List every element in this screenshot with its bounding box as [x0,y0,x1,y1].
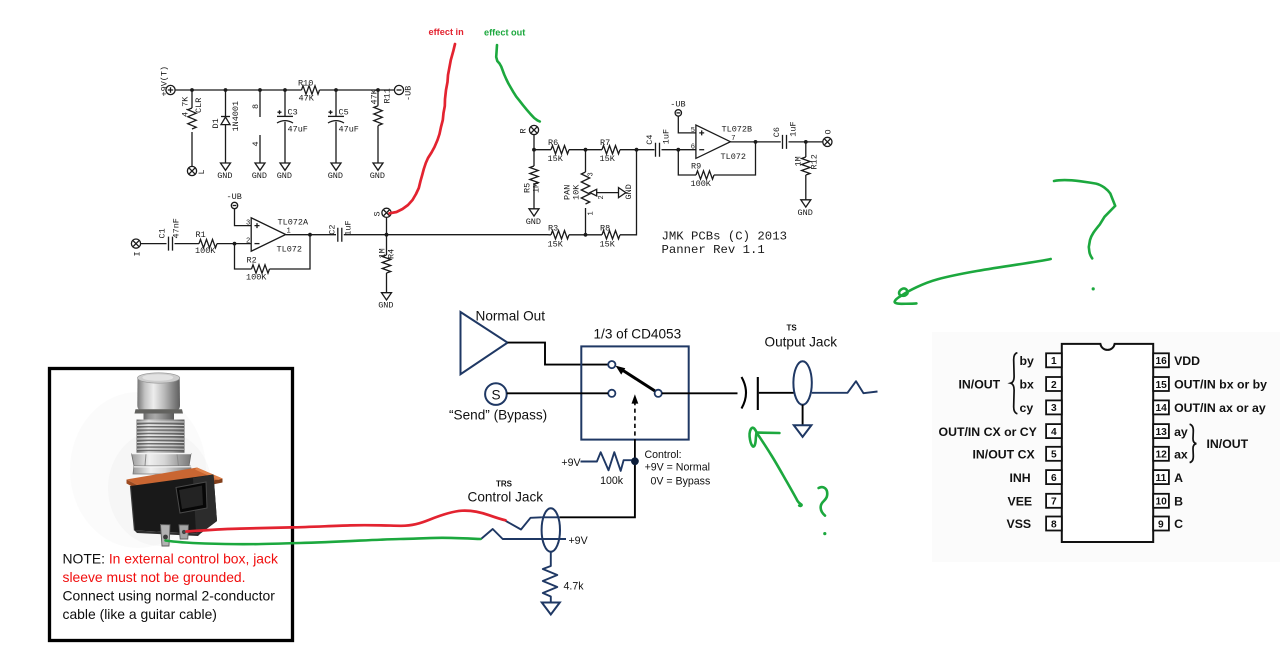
svg-text:47uF: 47uF [339,125,359,135]
svg-text:VEE: VEE [1008,495,1033,509]
svg-text:3: 3 [588,172,596,176]
svg-text:S: S [492,387,501,402]
note text line 1 [63,551,278,567]
resistor R6 15K [548,138,570,164]
svg-text:Control Jack: Control Jack [468,489,544,504]
wire S to switch throw 2 [507,392,608,394]
svg-text:effect in: effect in [429,27,465,37]
switch pole contact [655,390,662,397]
svg-text:15: 15 [1156,380,1168,391]
label +9V at 100k [561,457,581,469]
pin 4 [1046,424,1062,438]
svg-text:47K: 47K [370,88,380,104]
resistor 4.7k under jack [543,552,558,602]
ground GND under R4 [378,293,393,311]
svg-text:R6: R6 [548,138,558,148]
svg-text:OUT/IN CX or CY: OUT/IN CX or CY [939,425,1037,439]
note text line 2 [63,569,246,585]
svg-text:GND: GND [217,171,232,181]
op-amp U1B TL072B [691,125,752,163]
terminal -UB above op-amp B [670,99,685,116]
label 100k [600,475,624,487]
label cy [1020,401,1034,415]
svg-text:IN/OUT: IN/OUT [1207,437,1249,451]
svg-text:C4: C4 [645,134,655,144]
ground under output jack [794,405,812,437]
svg-text:OUT/IN bx or by: OUT/IN bx or by [1174,378,1267,392]
label 1/3 of CD4053 [594,327,682,342]
footswitch washer nut [133,466,192,474]
terminal I input [131,239,142,257]
svg-text:TS: TS [787,324,798,333]
pin 3 [1046,400,1062,414]
svg-text:TL072: TL072 [277,244,303,254]
svg-text:TL072A: TL072A [278,217,310,227]
svg-text:R3: R3 [548,223,558,233]
svg-text:47uF: 47uF [288,125,308,135]
terminal +9V(T) [160,66,176,97]
wire -UB to pin 5 [678,116,696,133]
resistor R11 47K [370,88,393,163]
svg-text:Control:: Control: [645,449,682,461]
pin 13 [1153,424,1169,438]
junction dot control [631,457,639,465]
label Control Jack [468,489,544,504]
wire junction to control jack [560,461,635,517]
svg-text:GND: GND [370,171,385,181]
label TS [787,324,798,333]
svg-text:GND: GND [624,184,634,199]
switch throw 2 contact [608,390,615,397]
S send circle [485,383,507,405]
svg-text:1/3 of CD4053: 1/3 of CD4053 [594,327,682,342]
resistor R10 47K [298,79,320,104]
terminal S [373,208,392,217]
svg-text:11: 11 [1156,473,1167,484]
label C [1174,517,1183,531]
svg-text:Output Jack: Output Jack [765,335,838,350]
label Control: [645,449,711,488]
brace right IN/OUT [1190,424,1249,462]
svg-text:R2: R2 [247,256,257,266]
svg-text:JMK PCBs (C) 2013: JMK PCBs (C) 2013 [662,230,787,244]
svg-text:16: 16 [1156,356,1168,367]
pin 15 [1153,377,1169,391]
pin 7 [1046,494,1062,508]
IC power pin 8 stub [251,90,261,117]
svg-text:14: 14 [1156,403,1168,414]
buffer triangle Normal Out [461,312,508,374]
power rail net +9V(T) wire [175,89,395,91]
capacitor C2 1uF [328,220,354,241]
svg-text:ax: ax [1174,448,1188,462]
orange mounting plate [127,468,223,498]
junction at pin 6 node [676,148,696,152]
top row wire R6 R7 to C4 [534,148,676,152]
pin 14 [1153,400,1169,414]
ground GND under pin4 [252,163,267,181]
svg-text:C5: C5 [339,108,349,118]
output coupling capacitor [742,377,794,410]
label INH [1010,471,1031,485]
pin 8 [1046,517,1062,531]
svg-text:47K: 47K [299,94,315,104]
svg-text:C3: C3 [288,108,298,118]
svg-text:I: I [133,251,143,256]
op-amp U1A TL072A [246,217,309,254]
svg-text:1N4001: 1N4001 [231,101,241,132]
wire C6 to O node [789,140,824,144]
svg-text:+9V: +9V [569,535,589,547]
label OUT/IN ax or ay [1174,401,1266,415]
svg-text:3: 3 [1051,403,1057,414]
green scribble dot right [1092,287,1095,290]
svg-text:1uF: 1uF [662,129,672,144]
footswitch threaded bushing [137,420,185,454]
ground GND under C3 [277,163,292,181]
label VSS [1007,517,1032,531]
green question squiggle [819,487,828,535]
svg-text:R11: R11 [383,88,393,103]
terminal R [519,125,539,134]
svg-text:O: O [824,129,834,134]
svg-text:OUT/IN ax or ay: OUT/IN ax or ay [1174,401,1266,415]
resistor R8 15K [600,223,621,249]
ground GND at PAN wiper (sideways) [619,184,635,199]
svg-text:bx: bx [1020,378,1035,392]
svg-text:4.7k: 4.7k [564,581,585,593]
svg-text:R1: R1 [196,230,206,240]
svg-text:4.7K: 4.7K [181,96,191,117]
resistor R9 100K feedback [678,142,755,189]
ground GND under C5 [328,163,343,181]
terminal -UB above op-amp A [227,192,242,209]
terminal O [823,129,834,146]
resistor R3 15K [548,223,570,249]
svg-text:Panner Rev 1.1: Panner Rev 1.1 [662,243,765,257]
svg-text:NOTE: In external control box,: NOTE: In external control box, jack [63,551,278,567]
svg-text:1uF: 1uF [344,220,354,235]
green scribble long arc with arrowhead [895,259,1051,304]
capacitor C3 47uF [277,90,308,163]
pin 5 [1046,447,1062,461]
output jack ellipse [793,361,811,404]
ground under 4.7k [542,603,560,615]
svg-text:1M: 1M [532,183,542,193]
footswitch hex nut [132,454,192,467]
svg-text:C2: C2 [328,224,338,234]
svg-text:+9V: +9V [561,457,581,469]
datasheet backdrop [932,332,1280,562]
label TRS [496,480,513,489]
label Normal Out [476,309,546,324]
wire I to C1 [140,243,166,245]
junction dots on rail [190,88,380,92]
ground GND under D1 [217,163,232,181]
IC power pin 4 stub [251,135,261,163]
wire R down to top row [532,134,536,151]
svg-text:+9V(T): +9V(T) [160,66,170,97]
svg-text:15K: 15K [600,239,616,249]
svg-text:100K: 100K [246,273,267,283]
svg-text:effect out: effect out [484,28,525,38]
label 4.7k [564,581,585,593]
svg-text:15K: 15K [548,154,564,164]
svg-text:7: 7 [1051,497,1057,508]
svg-text:-UB: -UB [227,192,242,202]
svg-text:R10: R10 [298,79,313,89]
svg-text:IN/OUT: IN/OUT [959,378,1001,392]
svg-text:R4: R4 [387,249,397,259]
resistor R12 1M [794,142,820,200]
svg-text:C1: C1 [158,228,168,238]
resistor R1 100K [195,230,217,256]
wire red-end squiggle to jack tip [505,517,560,529]
pin 16 [1153,353,1169,367]
svg-text:100K: 100K [691,179,712,189]
wire op-amp A output [286,233,336,237]
green control wire from lug [166,538,481,544]
potentiometer PAN 10K [563,150,619,235]
svg-text:2: 2 [1051,380,1057,391]
svg-text:R7: R7 [600,138,610,148]
svg-text:cy: cy [1020,401,1034,415]
svg-text:VDD: VDD [1174,354,1200,368]
label by [1020,354,1035,368]
resistor R7 15K [600,138,621,164]
svg-text:2: 2 [598,195,606,199]
svg-text:C6: C6 [772,127,782,137]
resistor 100k hand-drawn [581,452,632,471]
svg-text:L: L [197,169,207,174]
note text line 4 [63,606,217,622]
svg-text:6: 6 [691,144,695,152]
control jack ellipse [542,508,560,551]
svg-text:GND: GND [328,171,343,181]
label IN/OUT CX [973,448,1036,462]
pin 11 [1153,470,1169,484]
diode D1 1N4001 [211,90,241,163]
resistor R5 1M [523,150,542,209]
svg-text:3: 3 [246,220,250,228]
svg-text:10K: 10K [572,184,582,200]
svg-text:D1: D1 [211,118,221,128]
svg-text:C: C [1174,517,1183,531]
svg-text:sleeve must not be grounded.: sleeve must not be grounded. [63,569,246,585]
terminal -UB right [394,85,413,101]
svg-text:100k: 100k [600,475,624,487]
svg-text:9: 9 [1158,519,1164,530]
svg-text:ay: ay [1174,425,1188,439]
svg-text:GND: GND [798,208,813,218]
label A [1174,471,1183,485]
resistor R4 1M [378,235,397,293]
svg-text:TL072: TL072 [721,152,747,162]
capacitor C1 47nF [158,218,182,251]
svg-text:GND: GND [277,171,292,181]
label effect out [484,28,525,38]
svg-text:1M: 1M [794,156,804,166]
svg-text:B: B [1174,495,1183,509]
svg-text:5: 5 [691,127,695,135]
svg-text:1: 1 [1051,356,1057,367]
label +9V at jack [569,535,589,547]
switch wiper arrow [616,366,655,391]
wire R1 to inverting input, node with junction [217,242,251,246]
solder lug right [179,525,189,539]
svg-text:TL072B: TL072B [722,125,753,135]
resistor R2 100K feedback [235,235,311,283]
svg-text:R8: R8 [600,223,610,233]
svg-text:INH: INH [1010,471,1031,485]
wire C2 to S node and on to R3 [344,233,549,237]
svg-text:Normal Out: Normal Out [476,309,546,324]
svg-text:1: 1 [588,211,596,215]
ground GND under R5 [526,209,541,227]
red control wire from lug [187,511,506,532]
title JMK PCBs [662,230,787,257]
photo soft shadow [70,392,212,548]
svg-text:13: 13 [1156,427,1168,438]
terminal L [187,166,207,175]
label bx [1020,378,1035,392]
red hand-drawn wire effect in to S [390,44,456,213]
green scribble upper right [1054,180,1115,258]
ground GND under R11 [370,163,385,181]
svg-text:GND: GND [252,171,267,181]
svg-text:8: 8 [251,104,261,109]
svg-text:cable (like a guitar cable): cable (like a guitar cable) [63,606,217,622]
bottom row wire R3 R8 [549,150,637,237]
wire output jack right squiggle [812,381,878,393]
note box frame [50,369,293,641]
label VDD [1174,354,1200,368]
svg-text:6: 6 [1051,473,1057,484]
label OUT/IN CX or CY [939,425,1037,439]
pin 9 [1153,517,1169,531]
label Send Bypass [449,407,547,422]
capacitor C6 1uF [772,121,799,149]
svg-text:4: 4 [1051,427,1057,438]
capacitor C4 1uF [645,129,672,157]
svg-text:S: S [373,211,383,216]
wire green-end squiggle to jack sleeve +9V [481,529,566,539]
svg-text:1uF: 1uF [789,121,799,136]
svg-text:GND: GND [378,301,393,311]
pin 12 [1153,447,1169,461]
control dashed arrow [632,394,639,461]
label Output Jack [765,335,838,350]
switch throw 1 contact [608,361,615,368]
label OUT/IN bx or by [1174,378,1267,392]
pin 10 [1153,494,1169,508]
wire -UB to pin 3 [235,209,252,226]
svg-text:VSS: VSS [1007,517,1032,531]
capacitor C5 47uF [328,90,359,163]
svg-text:IN/OUT CX: IN/OUT CX [973,448,1036,462]
svg-text:R: R [519,128,529,133]
svg-text:2: 2 [246,238,250,246]
label effect in [429,27,465,37]
wire S to row [386,217,388,235]
resistor CLR 4.7K [181,90,205,166]
green arrow near output jack [750,428,802,506]
green hand-drawn wire effect out to R [496,45,540,122]
svg-text:-UB: -UB [670,99,685,109]
svg-text:10: 10 [1156,497,1168,508]
svg-text:R12: R12 [810,154,820,169]
label B [1174,495,1183,509]
note text line 3 [63,587,276,603]
svg-text:15K: 15K [548,239,564,249]
pin 6 [1046,470,1062,484]
svg-text:100K: 100K [195,246,216,256]
wire Normal Out to switch throw 1 [508,343,609,365]
svg-text:“Send” (Bypass): “Send” (Bypass) [449,407,547,422]
svg-text:+9V = Normal: +9V = Normal [645,461,710,473]
svg-text:12: 12 [1156,450,1168,461]
label VEE [1008,495,1033,509]
label ax [1174,448,1188,462]
svg-text:-UB: -UB [404,86,414,101]
wire op-amp B output [730,140,780,144]
pin 1 [1046,353,1062,367]
svg-text:TRS: TRS [496,480,513,489]
CD4053 box [581,346,688,439]
svg-text:8: 8 [1051,519,1057,530]
svg-text:A: A [1174,471,1183,485]
svg-text:Connect using normal 2-conduct: Connect using normal 2-conductor [63,587,276,603]
svg-text:CLR: CLR [194,98,204,113]
brace left IN/OUT [959,353,1018,414]
ground GND under R12 [798,200,813,218]
footswitch neck [144,414,175,421]
solder lug left [161,525,171,547]
svg-text:47nF: 47nF [172,218,182,238]
svg-text:0V = Bypass: 0V = Bypass [651,476,711,488]
label ay [1174,425,1188,439]
svg-text:GND: GND [526,217,541,227]
svg-text:by: by [1020,354,1035,368]
wire pole to output cap [662,392,738,394]
footswitch cap button [135,373,184,414]
pin 2 [1046,377,1062,391]
svg-text:5: 5 [1051,450,1057,461]
svg-text:4: 4 [251,141,261,146]
svg-text:15K: 15K [600,154,616,164]
switch black body [131,475,218,537]
svg-text:R9: R9 [691,162,701,172]
wire C1 to R1 [175,243,200,245]
IC CD4053 body [1062,344,1153,542]
